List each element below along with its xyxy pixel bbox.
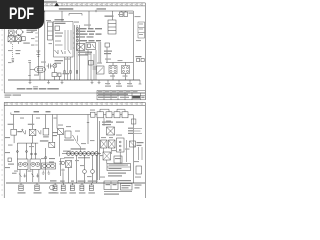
bottom left resistor BL2 (34, 183, 42, 194)
gauge box GB1 (17, 159, 28, 170)
ground sym g4 (91, 80, 94, 84)
lower bus page2 (6, 182, 145, 184)
box with X right RX1 (107, 127, 115, 135)
leader arrows right (128, 128, 142, 134)
border frame page1 left zone ticks (1, 10, 2, 90)
wire right of contact box (126, 140, 128, 162)
knot small marks (61, 159, 65, 173)
label bus 1 (14, 111, 20, 112)
coil contact marks (55, 50, 71, 54)
label distributor ticks (73, 33, 74, 48)
CB1 inner text (139, 24, 143, 36)
relay K2 box (86, 43, 96, 50)
border frame page2 left (3, 102, 5, 198)
relay K1 with X (77, 44, 85, 51)
bottom right box A (104, 181, 118, 190)
fuse row box2 (97, 112, 104, 118)
bottom note text (104, 194, 119, 195)
switch contact pair2 (38, 130, 41, 134)
label above boxes row l1 (8, 124, 15, 125)
pin list row5 (77, 40, 102, 42)
grounds under GB3 (42, 171, 50, 175)
border frame page1 right (144, 3, 146, 100)
wire drop pinlist (88, 11, 90, 28)
mid column labels (49, 132, 58, 182)
wire drop left long (38, 11, 40, 75)
text box mid right (114, 156, 122, 163)
mid verticals quad (88, 50, 96, 80)
component box P2A (11, 129, 22, 135)
wire feed stub lower (69, 14, 82, 16)
terminal block small (22, 37, 25, 41)
wire fuse row links (95, 114, 134, 116)
relay RR2 (109, 140, 116, 148)
note below frame line1 (5, 95, 22, 96)
pin list row1 (77, 28, 103, 30)
lamp L1 (53, 64, 57, 68)
ground sym g5 (98, 80, 101, 84)
switch inner box (55, 26, 60, 31)
small box on right bus (131, 119, 136, 124)
label under enclosure row2 (55, 63, 62, 64)
bottom right marks (118, 180, 142, 188)
contact rings on drops (17, 151, 37, 155)
wire relay drops (113, 74, 126, 81)
label bus 3 (46, 111, 51, 112)
scattered labels page1 (8, 14, 141, 77)
label feed left (59, 8, 74, 10)
wire stub under box3 (103, 118, 105, 126)
wire drop right bus (132, 11, 134, 80)
wire drops below boxes (14, 135, 32, 143)
marks on mid verticals (92, 67, 96, 69)
wire battery to bus (39, 50, 45, 80)
small box on mid verticals (89, 61, 94, 66)
component box P2C (43, 129, 49, 138)
lamp LC3 (91, 170, 95, 174)
sender box top (105, 43, 110, 47)
label right of generator (27, 30, 38, 31)
label chain mid (16, 50, 21, 54)
switch arrows mid (73, 135, 78, 142)
labels mid right (104, 51, 112, 55)
label above circle row (71, 148, 86, 149)
wire main feed (40, 10, 133, 12)
cutout box with X (16, 36, 22, 42)
marks on vertical mid1 (59, 162, 62, 165)
component small SA (52, 73, 57, 77)
fuse row box3 (106, 112, 112, 118)
wire gauge box drops (20, 170, 39, 183)
left small box LB1 (8, 158, 14, 165)
capacitor C1 (47, 64, 53, 69)
component box P2B with X (29, 129, 36, 135)
label right of SA SB (63, 73, 70, 74)
wire pin column pair (99, 42, 101, 63)
wire drop d1 (12, 115, 14, 130)
wire harness drops to bus (65, 57, 80, 80)
wire RR drops (104, 148, 121, 164)
border frame page2 right (144, 102, 146, 198)
wire drop to switch enclosure (61, 11, 63, 22)
arrow contact b1 (19, 174, 26, 178)
label below circle row 2 (78, 157, 90, 158)
relay RR3 (103, 152, 111, 160)
border frame page2 top ruler (4, 102, 145, 105)
wire vertical mid1 (59, 135, 60, 177)
label under cluster (23, 43, 30, 44)
ground sym g3 (61, 80, 64, 84)
bottom resistor RB23 (79, 183, 86, 194)
tick on drop d6 (87, 122, 89, 124)
ground sym g2 (47, 80, 50, 84)
label right of generator row2 (27, 32, 34, 33)
scattered labels page2 (8, 110, 141, 178)
relay K4 with circles (109, 66, 117, 74)
title block dark cell (132, 96, 140, 99)
marks above lower bus (60, 181, 98, 182)
ruler arrow marker (54, 3, 59, 7)
border frame page1 left (3, 3, 5, 93)
pin list row3 (77, 33, 102, 35)
bottom right box B with text (121, 184, 133, 191)
label feed right (97, 8, 107, 9)
bottom resistor RB22 (69, 183, 76, 194)
wire drop fusebox (112, 11, 114, 20)
fuse box F (108, 20, 116, 34)
aux box pair top right (120, 11, 134, 17)
component small SB (58, 73, 61, 77)
lamp LC2 (83, 170, 87, 174)
bottom left resistor BL1 (18, 183, 26, 194)
label under amplifier (108, 173, 126, 177)
gauge box GB2 (30, 159, 40, 170)
connector circle row (62, 152, 101, 156)
bottom resistor RB21 (60, 183, 66, 194)
marks left of RR3 (100, 155, 103, 156)
wire drop battery line (44, 11, 46, 50)
right cluster small box (130, 141, 144, 147)
label below circle row (64, 157, 74, 158)
contact box tall (117, 138, 125, 152)
label right of link row (40, 140, 49, 141)
node tick feeds (44, 10, 96, 12)
generator G1 (8, 30, 14, 36)
motor M1 (15, 27, 24, 35)
label above circle row 2 (63, 151, 71, 152)
switch cluster SW2 (58, 129, 75, 141)
amplifier wide box (107, 164, 131, 171)
wire drop d5 (56, 115, 58, 129)
fuse row box1 (91, 112, 96, 117)
horn H1 (30, 66, 46, 80)
border frame page1 top ruler (4, 3, 145, 6)
wire left riser (29, 62, 31, 81)
pin list row4 (77, 36, 94, 37)
wire vertical pair right (98, 118, 100, 180)
battery B1 (36, 51, 40, 56)
title block page1 (97, 91, 145, 100)
wire drop d4 (52, 115, 54, 143)
knot box with X (66, 161, 72, 168)
gauge box GB3 (42, 163, 56, 169)
bottom line under box (104, 191, 132, 193)
riser top marks (28, 61, 31, 76)
border frame page2 left zone ticks (1, 110, 2, 195)
border frame page1 bottom (4, 92, 145, 94)
right bus vertical (133, 115, 135, 183)
note below frame line2 (5, 97, 11, 98)
switch contact pair (22, 129, 26, 134)
resistor under bus R12 (127, 80, 133, 87)
resistor under bus R13 (139, 80, 142, 84)
bottom left circle comp BL3 (49, 185, 57, 193)
right margin cluster (136, 56, 145, 62)
right verticals minor (139, 147, 143, 160)
resistor under bus R10 (105, 80, 111, 87)
connector symbol lower (12, 59, 15, 63)
wire distributor verticals (75, 25, 80, 57)
label under enclosure row1 (55, 60, 64, 61)
ignition switch enclosure (54, 22, 74, 58)
arrow contact b2 (32, 174, 40, 178)
labels under relays (78, 52, 92, 56)
connector block right CB1 (138, 22, 145, 38)
ring on mid2 (45, 157, 47, 159)
label above boxes row l2 (28, 124, 35, 125)
caption page1 (17, 86, 59, 89)
pin list row2 (77, 31, 96, 32)
wire vertical mid2 (45, 148, 47, 180)
relay RR1 (101, 140, 108, 148)
wire drop d2 (31, 115, 33, 130)
relay K5 with circles (122, 66, 130, 74)
battery ticks (35, 33, 38, 45)
small box right margin (136, 166, 142, 174)
wires below knot (63, 155, 97, 183)
switch S1 (97, 66, 105, 74)
left margin labels page2 (5, 137, 17, 174)
wire drop d3 (45, 115, 47, 129)
wire lamp drops (85, 173, 93, 183)
wire sender drop (106, 47, 108, 63)
bottom resistor RB20 (52, 183, 59, 194)
wire relay feed line (106, 63, 133, 66)
box with X mid left (49, 142, 55, 147)
wire cluster stubs (11, 34, 18, 44)
wire fuse row tops (100, 109, 125, 112)
knot lamp (61, 161, 64, 164)
fuse marks on harness (64, 71, 78, 74)
wire drop d6 long (87, 115, 89, 145)
wire comp drops (55, 68, 60, 80)
fuse row box4 (114, 112, 120, 118)
label bus 2 (34, 111, 40, 112)
resistor under bus R11 (116, 80, 122, 87)
ground sym g1 (29, 80, 32, 84)
title block text smudges (98, 91, 145, 98)
label left of fusebox (105, 16, 114, 17)
main feed bus page2 (11, 113, 91, 115)
fuse row box5 (122, 112, 128, 118)
ground bus page1 (8, 79, 140, 81)
wire link row (17, 143, 38, 159)
label under fuse row (102, 122, 124, 126)
label inside enclosure rows (55, 33, 63, 46)
label above enclosure (55, 19, 65, 20)
header text above border (44, 1, 57, 3)
wire diagonal to band (76, 142, 81, 152)
label above inner box (55, 23, 66, 24)
wire dashed drop (12, 44, 14, 58)
bottom resistor RB24 (88, 183, 95, 194)
regulator box with X (8, 36, 15, 42)
terminal strip narrow box (48, 22, 53, 40)
switch inner verticals (65, 30, 71, 50)
